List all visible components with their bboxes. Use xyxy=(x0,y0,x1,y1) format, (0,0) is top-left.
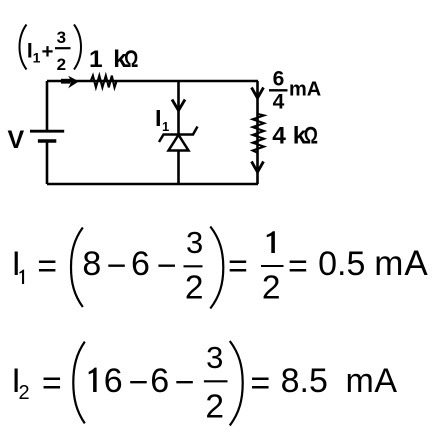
svg-text:−: − xyxy=(107,247,127,285)
svg-text:8.5: 8.5 xyxy=(281,362,328,400)
svg-text:mA: mA xyxy=(346,362,398,400)
svg-text:1: 1 xyxy=(33,49,41,65)
svg-text:=: = xyxy=(288,248,308,286)
svg-text:3: 3 xyxy=(206,340,223,375)
svg-text:I: I xyxy=(155,105,162,131)
svg-text:+: + xyxy=(42,40,54,63)
svg-text:=: = xyxy=(37,248,57,286)
svg-text:8: 8 xyxy=(82,245,101,283)
svg-text:2: 2 xyxy=(185,270,204,307)
svg-text:2: 2 xyxy=(57,55,66,74)
svg-text:0.5: 0.5 xyxy=(318,245,365,283)
svg-text:3: 3 xyxy=(186,225,203,260)
svg-text:Ω: Ω xyxy=(124,45,138,72)
svg-text:3: 3 xyxy=(57,28,66,47)
svg-text:I: I xyxy=(12,245,21,283)
svg-text:−: − xyxy=(129,364,149,402)
svg-text:Ω: Ω xyxy=(304,122,318,149)
svg-text:6: 6 xyxy=(104,362,123,400)
svg-text:mA: mA xyxy=(289,79,321,101)
svg-text:2: 2 xyxy=(262,270,281,307)
svg-text:1: 1 xyxy=(162,119,169,134)
svg-text:=: = xyxy=(42,364,62,402)
svg-text:=: = xyxy=(250,364,270,402)
svg-text:6: 6 xyxy=(131,245,150,283)
svg-text:V: V xyxy=(8,126,25,154)
svg-text:−: − xyxy=(175,364,195,402)
svg-text:4: 4 xyxy=(273,91,285,114)
svg-text:−: − xyxy=(157,247,177,285)
svg-text:6: 6 xyxy=(150,362,169,400)
svg-text:6: 6 xyxy=(273,68,285,91)
svg-text:4 k: 4 k xyxy=(272,123,306,150)
svg-text:mA: mA xyxy=(374,244,429,283)
svg-text:=: = xyxy=(228,248,248,286)
svg-text:2: 2 xyxy=(19,382,30,404)
svg-text:2: 2 xyxy=(205,389,224,426)
svg-text:1: 1 xyxy=(89,46,103,73)
